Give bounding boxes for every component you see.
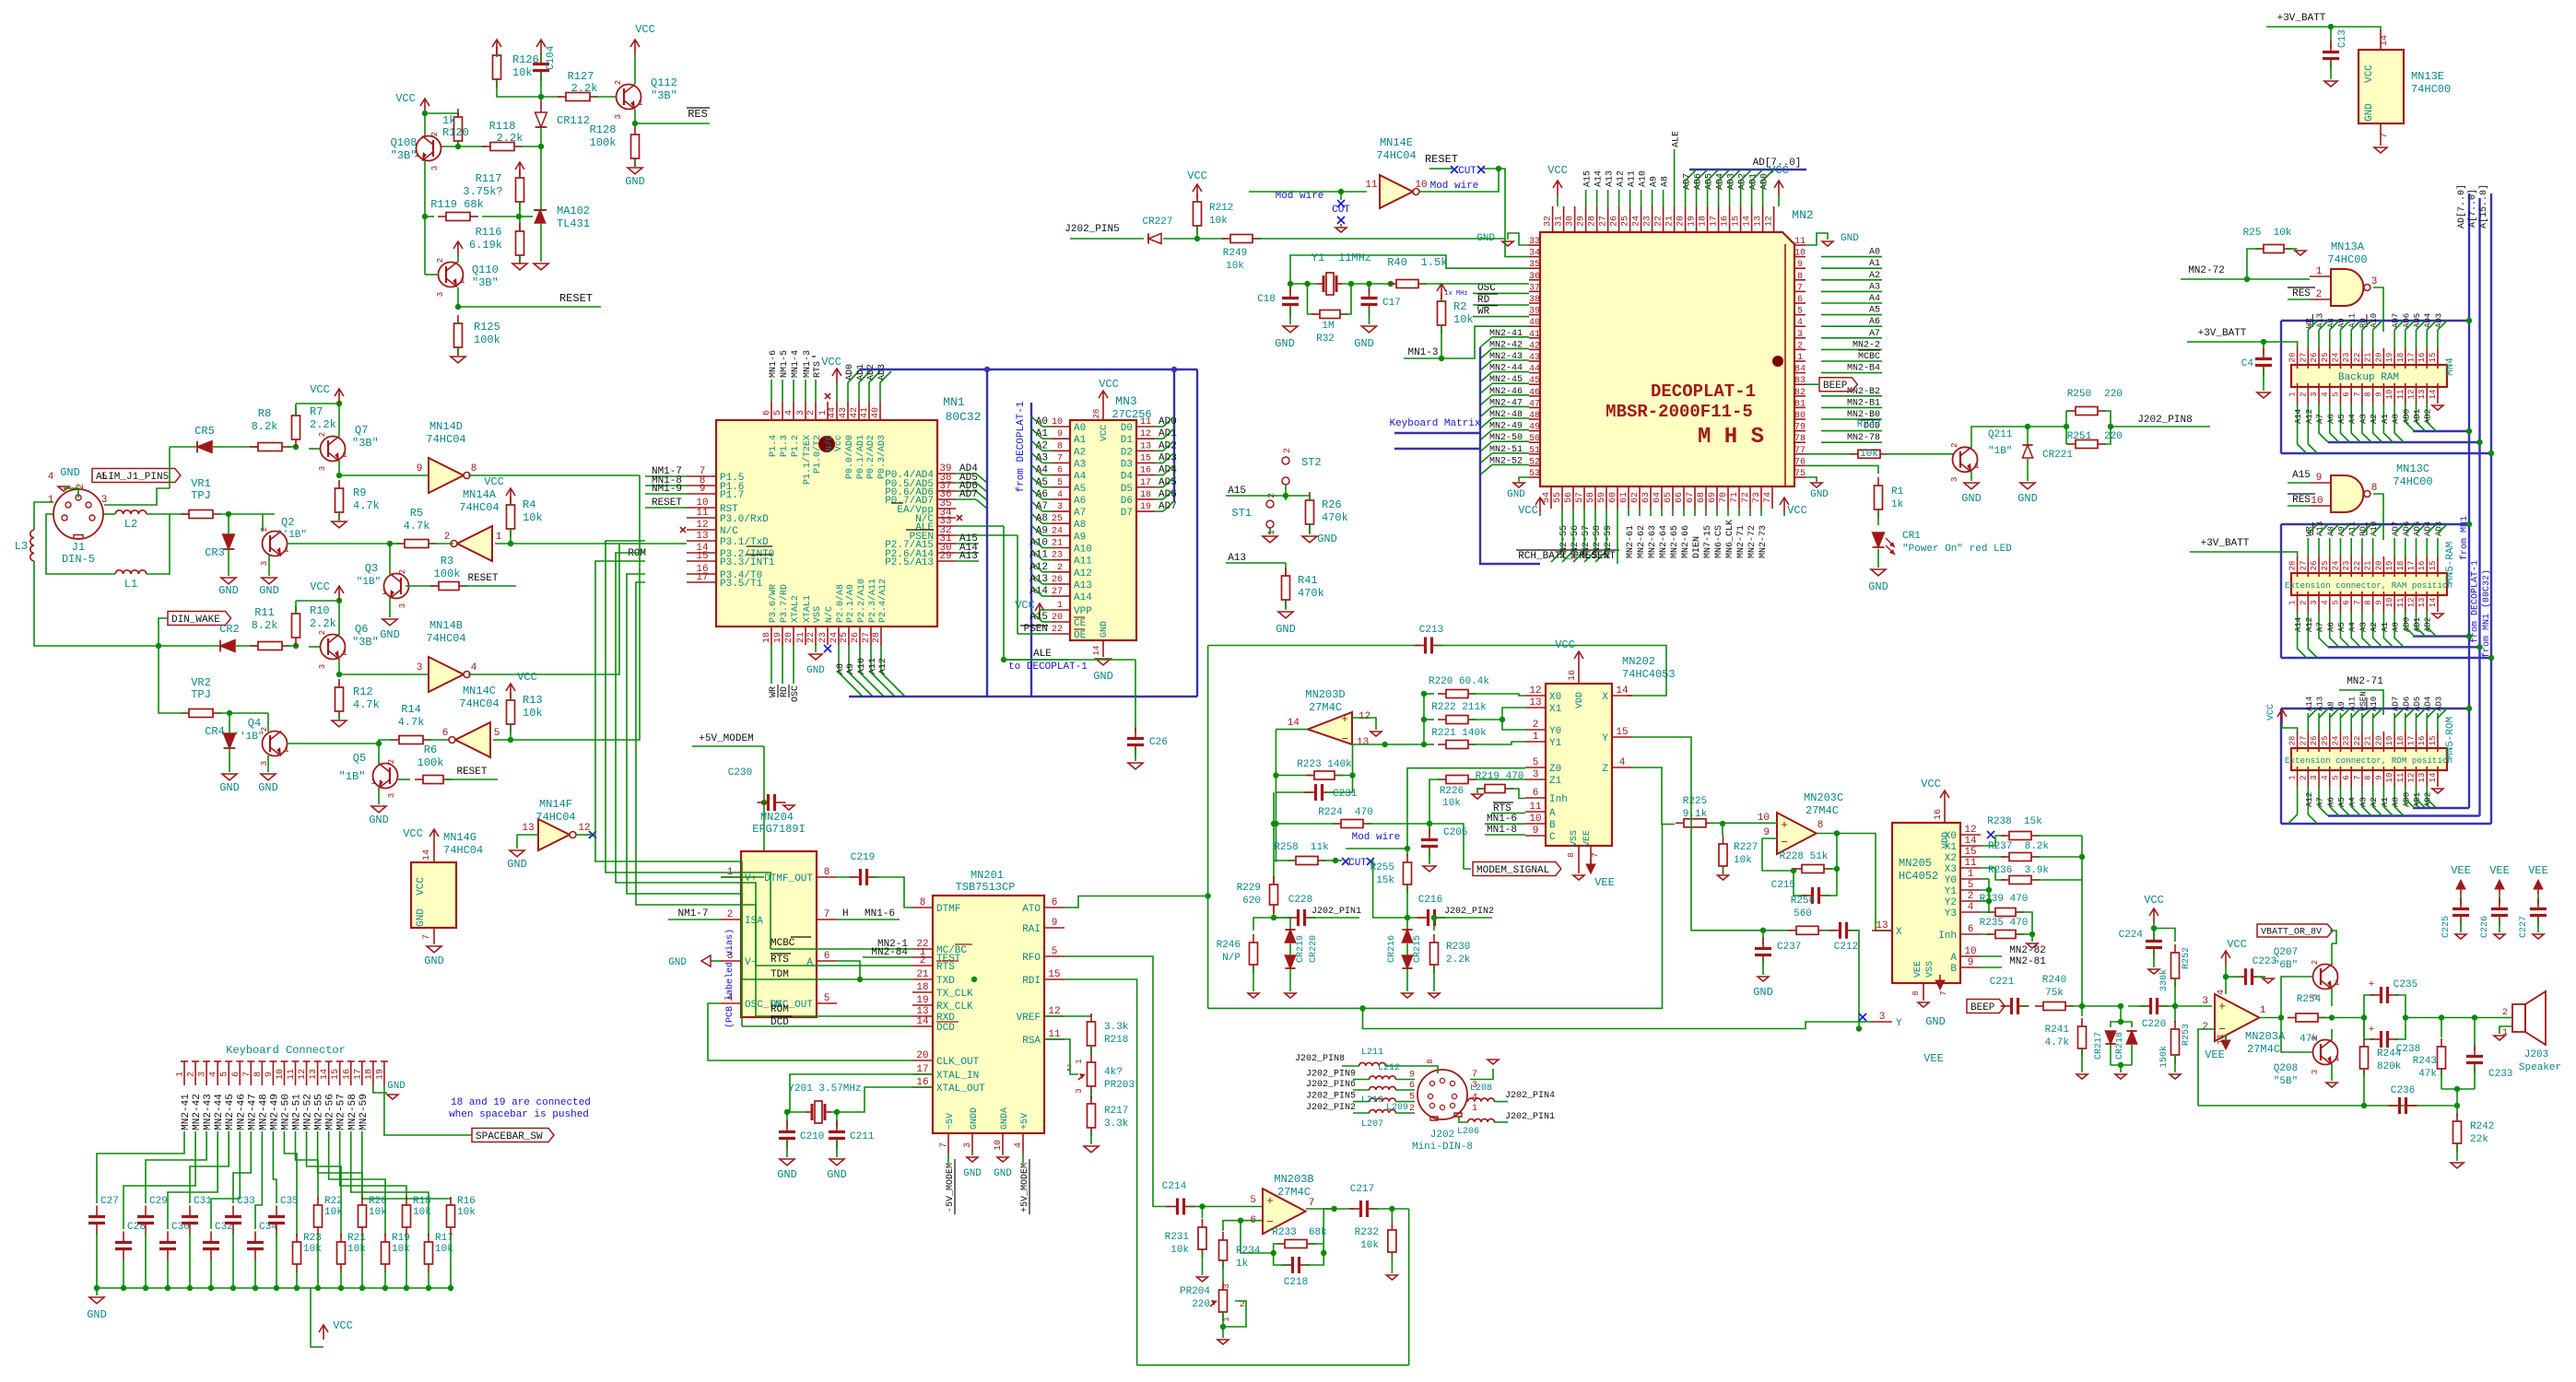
svg-text:24: 24 — [2331, 561, 2340, 571]
svg-text:R41: R41 — [1298, 574, 1318, 587]
svg-text:7: 7 — [1939, 990, 1948, 995]
inductor L3 — [30, 530, 34, 561]
wire R25 to node — [2247, 249, 2261, 276]
svg-text:"3B": "3B" — [651, 89, 677, 102]
wire R116 to GND — [519, 255, 521, 262]
wire R228 to out — [1828, 834, 1837, 870]
svg-text:GND: GND — [416, 908, 427, 927]
ground at J1 pin2 — [58, 486, 69, 491]
svg-text:33: 33 — [1529, 237, 1540, 247]
ground below R227 — [1718, 875, 1729, 880]
ground below Q208 — [2326, 1083, 2337, 1087]
wire pin19 to spacebar label — [384, 1085, 472, 1135]
capacitor C29 — [137, 1206, 154, 1235]
wire OSC_IN loop — [708, 1003, 912, 1060]
junction A/TXD — [857, 977, 863, 982]
svg-text:X0: X0 — [1945, 831, 1957, 842]
ground below C13 — [2324, 81, 2337, 87]
net AD7 (connector MN5-RAM extension RAM pin 19) — [2394, 538, 2395, 556]
svg-text:P0.0/AD0: P0.0/AD0 — [844, 435, 855, 479]
wire Q211 collector to R250 pair — [1971, 427, 2066, 448]
svg-text:2.2k: 2.2k — [310, 617, 336, 630]
svg-text:ALE: ALE — [1672, 131, 1682, 147]
wire rail down — [763, 746, 765, 877]
svg-text:26: 26 — [1052, 575, 1063, 585]
wire Y3 — [1981, 911, 1991, 913]
svg-text:"5B": "5B" — [2274, 1076, 2298, 1087]
capacitor C28 — [115, 1232, 132, 1260]
svg-text:2: 2 — [727, 909, 734, 920]
capacitor C238 (polar) — [2364, 1018, 2374, 1040]
svg-text:AD[7..0]: AD[7..0] — [1753, 158, 1802, 169]
wire VCC to Q7 collector — [338, 404, 340, 437]
ground below Q3 — [382, 619, 397, 626]
svg-text:P1.3: P1.3 — [780, 435, 790, 457]
svg-text:67: 67 — [1686, 492, 1696, 503]
solder jumper ST2 — [1282, 457, 1289, 464]
svg-text:R4: R4 — [523, 498, 535, 511]
svg-text:26: 26 — [1610, 216, 1620, 227]
no-connect MN1 pin1 — [825, 393, 830, 399]
svg-text:C29: C29 — [149, 1196, 168, 1207]
wire — [786, 1112, 788, 1128]
svg-text:10: 10 — [2385, 773, 2394, 783]
svg-text:19: 19 — [2385, 561, 2394, 571]
wire MN14A input side — [495, 543, 511, 545]
net label MN2-57 (MN2 bottom) — [1583, 509, 1585, 516]
svg-text:74HC04: 74HC04 — [459, 501, 499, 514]
inductor L211 — [1359, 1062, 1386, 1066]
resistor R25 10k — [2255, 245, 2292, 253]
resistor R228 51k — [1794, 865, 1832, 873]
svg-text:MN2-51: MN2-51 — [292, 1094, 303, 1130]
capacitor C215 — [1794, 871, 1808, 896]
svg-text:4: 4 — [471, 662, 477, 673]
svg-text:CR217: CR217 — [2094, 1032, 2104, 1060]
svg-text:2: 2 — [920, 955, 926, 966]
svg-text:10: 10 — [2385, 390, 2394, 400]
capacitor C220 — [2140, 998, 2169, 1014]
wire CR3 to GND — [228, 549, 229, 576]
resistor R223 140k — [1276, 775, 1313, 777]
svg-text:24: 24 — [1052, 526, 1063, 536]
svg-text:R244: R244 — [2377, 1048, 2402, 1060]
svg-text:MN2-71: MN2-71 — [1736, 525, 1747, 558]
svg-text:MN5-ROM: MN5-ROM — [2445, 717, 2456, 759]
svg-text:A[15..8]: A[15..8] — [2478, 184, 2489, 228]
svg-text:VCC: VCC — [484, 475, 504, 488]
wire L3 top to J1 pin4 — [34, 502, 53, 530]
svg-text:Y0: Y0 — [1549, 726, 1561, 737]
wire keyboard pin 3 to C29 — [146, 1131, 206, 1203]
svg-text:65: 65 — [1664, 492, 1674, 503]
ground below R231 — [1197, 1277, 1208, 1282]
svg-text:A0: A0 — [1074, 423, 1086, 434]
svg-text:3: 3 — [198, 1072, 208, 1077]
bus A[7..0] vertical right — [2478, 198, 2480, 816]
svg-text:R8: R8 — [258, 407, 271, 420]
svg-text:MN2-59: MN2-59 — [359, 1094, 370, 1130]
svg-text:1k: 1k — [442, 114, 455, 127]
connector MN4 Backup RAM top pins 28..15 — [2297, 348, 2299, 369]
svg-text:MN2-48: MN2-48 — [258, 1094, 269, 1130]
wire VCC to R120 — [425, 113, 458, 118]
svg-text:P1.1/T2EX: P1.1/T2EX — [802, 435, 813, 485]
hierarchical label DIN_WAKE — [168, 612, 231, 626]
svg-text:R32: R32 — [1316, 334, 1335, 345]
bus bottom horizontal — [849, 696, 1197, 697]
svg-text:ALIM_J1_PIN5: ALIM_J1_PIN5 — [96, 472, 169, 483]
svg-text:VREF: VREF — [1017, 1013, 1041, 1024]
svg-text:10k: 10k — [303, 1244, 322, 1255]
bus vertical from DECOPLAT-1 — [1030, 403, 1032, 697]
svg-text:C237: C237 — [1777, 942, 1801, 953]
svg-text:21: 21 — [916, 969, 929, 980]
overbar EA — [891, 502, 903, 504]
diagonals MN5-ROM bottom — [2308, 805, 2317, 824]
wire L211 to pin8 — [1385, 1066, 1438, 1073]
svg-text:19: 19 — [773, 632, 783, 643]
svg-text:A14: A14 — [2294, 617, 2303, 632]
IC MN2 DECOPLAT-1 MBSR-2000F11-5 — [1540, 232, 1794, 486]
svg-text:AD7: AD7 — [2392, 697, 2401, 711]
wire/net A9 to bottom bus — [848, 645, 850, 673]
svg-text:220: 220 — [2104, 431, 2123, 442]
diode CR216 — [1402, 955, 1412, 968]
svg-text:18: 18 — [2396, 353, 2405, 363]
wire to Q110 base — [425, 274, 438, 275]
svg-text:VSS: VSS — [1570, 830, 1580, 847]
svg-text:R240: R240 — [2042, 975, 2066, 986]
svg-text:22: 22 — [2353, 561, 2362, 571]
svg-text:VCC: VCC — [1518, 504, 1538, 517]
resistor R249 10k — [1222, 235, 1261, 243]
bus ring MN5-RAM top — [2281, 523, 2469, 525]
svg-text:A9: A9 — [2337, 318, 2347, 328]
svg-text:10k: 10k — [1226, 261, 1244, 272]
svg-text:9: 9 — [2316, 473, 2323, 484]
svg-text:R237 8.2k: R237 8.2k — [1988, 841, 2049, 852]
wire — [510, 698, 512, 700]
svg-text:R258 11k: R258 11k — [1274, 842, 1329, 853]
svg-text:54: 54 — [1542, 492, 1552, 503]
wire MN2-71 down — [2339, 690, 2383, 715]
svg-text:A10: A10 — [1639, 170, 1649, 187]
wire MN2 pin34 (RES/R249 net) — [1505, 239, 1529, 257]
svg-text:R128: R128 — [590, 123, 617, 136]
wire R118 to CR112 node — [519, 146, 541, 147]
wire ALIM to CR5 — [169, 447, 171, 488]
svg-text:2: 2 — [2311, 1036, 2320, 1040]
net A11 (connector MN5-RAM extension RAM pin 23) — [2350, 538, 2352, 556]
resistor R127 2.2k — [558, 93, 598, 101]
svg-text:5: 5 — [2331, 600, 2340, 604]
wire RXD — [756, 1015, 912, 1017]
svg-text:VEE: VEE — [1923, 1052, 1944, 1065]
MN3 address pins — [1052, 426, 1070, 427]
svg-text:10: 10 — [2385, 598, 2394, 608]
ground (connector MN5-ROM extension ROM pin 14) — [2432, 789, 2443, 793]
resistor R258 11k — [1288, 857, 1326, 865]
svg-text:11: 11 — [1140, 417, 1151, 427]
wire — [1467, 1101, 1469, 1103]
svg-text:23: 23 — [1052, 551, 1063, 561]
svg-text:A7: A7 — [2316, 797, 2325, 807]
svg-text:42: 42 — [850, 407, 860, 418]
svg-text:MN14F: MN14F — [539, 798, 572, 811]
net label DIEN (MN2 bottom) — [1694, 509, 1696, 516]
svg-text:A2: A2 — [1074, 447, 1086, 458]
svg-text:R2: R2 — [1453, 300, 1466, 313]
MN3 VCC pin 28 — [1102, 405, 1104, 420]
connector MN5-RAM extension RAM bottom pins 1..14 — [2297, 591, 2299, 612]
svg-text:18: 18 — [364, 1069, 374, 1080]
resistor R234 1k — [1222, 1230, 1224, 1232]
svg-text:CUT: CUT — [1458, 166, 1476, 177]
wire — [262, 514, 264, 532]
svg-text:12: 12 — [696, 520, 708, 531]
svg-text:10k: 10k — [1442, 798, 1461, 809]
resistor R251 220 — [2067, 440, 2106, 449]
bus ring MN5-ROM left — [2280, 709, 2282, 824]
svg-text:8: 8 — [2364, 600, 2373, 604]
resistor R4 10k — [507, 497, 515, 537]
svg-text:71: 71 — [1730, 492, 1740, 503]
svg-text:74HC00: 74HC00 — [2411, 83, 2451, 96]
svg-text:MN2-47: MN2-47 — [247, 1094, 258, 1130]
wire res to rail — [296, 1271, 298, 1288]
junction C237 — [1760, 928, 1766, 933]
wire MN204 A to TXD — [837, 961, 860, 979]
svg-text:11: 11 — [2396, 390, 2405, 400]
wire PSEN down — [1017, 535, 1018, 634]
svg-text:Speaker: Speaker — [2519, 1062, 2561, 1073]
svg-text:2: 2 — [2502, 1008, 2508, 1018]
svg-text:5: 5 — [1250, 1195, 1256, 1206]
power VCC above C224 — [2149, 908, 2158, 923]
svg-text:J202_PIN2: J202_PIN2 — [1444, 907, 1494, 917]
svg-text:VCC: VCC — [635, 23, 655, 36]
wire/net A11 to bottom bus — [870, 645, 872, 673]
svg-text:16: 16 — [1721, 216, 1731, 227]
wire feedback bottom — [2198, 1105, 2457, 1107]
svg-text:11: 11 — [1794, 237, 1806, 247]
svg-text:''1B": ''1B" — [276, 530, 307, 541]
svg-text:MN13A: MN13A — [2331, 240, 2365, 253]
ground below Q2 — [262, 578, 276, 584]
wire CR2 to R11 — [236, 645, 257, 647]
power VCC above Q112 — [630, 40, 640, 54]
svg-text:17: 17 — [1140, 478, 1151, 488]
power VEE MN203A — [2221, 1035, 2230, 1049]
svg-text:10: 10 — [1052, 417, 1063, 427]
resistor R225 9.1k — [1676, 819, 1714, 827]
wire MN13A out down to MN4 pin20 — [2373, 287, 2383, 332]
svg-text:9: 9 — [1797, 260, 1803, 270]
svg-text:P1.7: P1.7 — [720, 490, 744, 501]
svg-text:J202_PIN9: J202_PIN9 — [1306, 1070, 1356, 1080]
wire R26 to GND — [1309, 524, 1311, 534]
svg-text:L208: L208 — [1470, 1083, 1492, 1094]
wire base Q208 — [2281, 1018, 2312, 1053]
ground below CR220 — [1285, 993, 1296, 998]
wire res to rail — [340, 1271, 342, 1288]
wire XTAL_IN — [790, 1074, 933, 1112]
wire wiper to bottom — [1223, 1301, 1246, 1327]
wire cap to rail — [254, 1259, 256, 1288]
svg-text:VCC: VCC — [821, 356, 841, 369]
svg-text:43: 43 — [1529, 353, 1540, 363]
bus ring MN5-ROM top — [2281, 708, 2469, 709]
wire to C228 — [1274, 917, 1292, 919]
svg-text:C225: C225 — [2441, 916, 2452, 938]
svg-text:R212: R212 — [1209, 203, 1233, 214]
svg-text:MN2-55: MN2-55 — [314, 1094, 325, 1130]
svg-text:R230: R230 — [1446, 942, 1470, 953]
wire/net AD3 (MN2 top) — [1729, 192, 1731, 206]
wire keyboard pin 13 to R20 — [318, 1131, 362, 1200]
svg-text:21: 21 — [1665, 216, 1676, 227]
svg-text:3: 3 — [1075, 1088, 1084, 1093]
wire to J202_PIN8 — [2111, 426, 2210, 427]
svg-text:D6: D6 — [1121, 496, 1133, 507]
svg-text:74HC4053: 74HC4053 — [1622, 668, 1676, 681]
wire ladder column to BEEP node — [2081, 836, 2083, 1006]
wire keyboard pin 16 to R17 — [351, 1131, 429, 1236]
svg-text:C17: C17 — [1382, 298, 1401, 309]
junction CR3 — [226, 511, 231, 517]
wire RESET net — [458, 306, 601, 308]
svg-text:27: 27 — [2299, 561, 2308, 571]
svg-text:J202_PIN6: J202_PIN6 — [1306, 1080, 1356, 1090]
svg-text:R238 15k: R238 15k — [1987, 816, 2042, 827]
wire RTS — [815, 380, 817, 402]
wire MN1-6 to B — [1485, 823, 1525, 825]
wire — [2153, 923, 2155, 929]
GND hook at MN2 pin11 — [1806, 233, 1828, 245]
svg-text:+5V_MODEM: +5V_MODEM — [699, 733, 753, 744]
svg-text:J1: J1 — [72, 541, 85, 554]
net AD6 (connector MN5-ROM extension ROM pin 18) — [2405, 713, 2406, 732]
svg-text:62: 62 — [1630, 492, 1641, 503]
wire — [1285, 496, 1287, 500]
wire — [457, 320, 459, 323]
svg-text:10: 10 — [1758, 813, 1770, 824]
svg-text:2: 2 — [806, 410, 817, 416]
svg-text:10k: 10k — [457, 1207, 476, 1218]
net AD2 (connector MN4 Backup RAM pin 13) — [2426, 404, 2428, 422]
resistor R8 8.2k — [250, 443, 290, 451]
svg-text:VCC: VCC — [2266, 704, 2276, 720]
capacitor C221 — [2001, 998, 2029, 1014]
wire RES — [2288, 299, 2310, 300]
MN1 right pins — [937, 473, 956, 474]
svg-text:2: 2 — [614, 80, 623, 85]
svg-text:6.19k: 6.19k — [469, 239, 502, 252]
resistor R243 47k — [2441, 1018, 2442, 1038]
ground below cut — [1335, 228, 1347, 232]
svg-text:C215: C215 — [1771, 880, 1795, 891]
svg-text:H: H — [842, 908, 849, 919]
net label A8 (MN2 top) — [1663, 190, 1664, 206]
svg-text:DIN-5: DIN-5 — [62, 553, 95, 566]
net A14 (connector MN4 Backup RAM pin 1) — [2297, 404, 2299, 422]
svg-text:64: 64 — [1653, 492, 1663, 503]
net A12 (connector MN4 Backup RAM pin 2) — [2307, 404, 2309, 422]
wire A — [1981, 955, 2002, 957]
resistor R236 3.9k — [1981, 868, 2006, 880]
net label WR (MN1) — [770, 645, 772, 684]
wire MN203C inverting hook — [1762, 838, 1794, 871]
resistor R220 60.4k — [1424, 693, 1434, 695]
capacitor C235 (polar) — [2364, 995, 2374, 1018]
svg-text:VCC: VCC — [333, 1319, 353, 1332]
wire cap to rail — [276, 1233, 277, 1288]
net A6 (connector MN4 Backup RAM pin 4) — [2329, 404, 2331, 422]
junction output/bases — [2278, 1014, 2284, 1020]
net label A14 (MN2 top) — [1596, 190, 1598, 206]
svg-text:GND: GND — [1276, 623, 1296, 636]
resistor R230 2.2k — [1433, 918, 1435, 931]
svg-text:C13: C13 — [2337, 29, 2348, 48]
svg-text:4: 4 — [2321, 392, 2330, 396]
svg-text:L211: L211 — [1361, 1048, 1383, 1058]
resistor R255 15k — [1404, 854, 1412, 893]
resistor R117 3.75k — [516, 170, 524, 210]
wire MN203C out to MN205 X — [1817, 834, 1892, 931]
ground below CR pair — [2115, 1074, 2126, 1079]
wire MN2 pin35 to crystal — [1290, 255, 1529, 284]
svg-text:CR227: CR227 — [1142, 217, 1172, 228]
ground below R232 — [1386, 1275, 1397, 1280]
svg-text:+3V_BATT: +3V_BATT — [2198, 328, 2247, 339]
svg-text:24: 24 — [1632, 216, 1642, 227]
svg-text:MN13C: MN13C — [2396, 463, 2429, 475]
svg-text:8: 8 — [920, 897, 926, 908]
wire to VCC — [296, 600, 339, 602]
svg-text:10k: 10k — [1170, 1245, 1189, 1256]
svg-text:RX_CLK: RX_CLK — [936, 1001, 973, 1013]
svg-text:22: 22 — [2353, 736, 2362, 746]
junction TXD/MN204-A — [971, 977, 977, 982]
svg-text:R247: R247 — [1857, 419, 1881, 430]
svg-text:CR218: CR218 — [2115, 1032, 2125, 1060]
svg-text:51: 51 — [1529, 446, 1540, 456]
svg-text:75: 75 — [1794, 469, 1806, 479]
svg-text:A4: A4 — [2348, 622, 2358, 632]
svg-text:100k: 100k — [474, 334, 500, 346]
wire C219 to DTMF — [871, 877, 912, 908]
wire MN2-72 — [2181, 278, 2310, 280]
svg-text:Keyboard Matrix: Keyboard Matrix — [1389, 418, 1480, 429]
svg-text:GND: GND — [1925, 1015, 1946, 1028]
svg-text:10: 10 — [2311, 496, 2323, 507]
capacitor C211 — [829, 1121, 845, 1150]
resistor R239 470 — [1980, 889, 1982, 891]
wire keyboard pin 17 to R16 — [362, 1131, 451, 1200]
svg-text:(PCB labeled vias): (PCB labeled vias) — [724, 929, 735, 1028]
wire — [1342, 1065, 1359, 1067]
wire — [2131, 1045, 2133, 1065]
speaker J203 — [2512, 991, 2546, 1045]
svg-text:4: 4 — [1014, 1142, 1024, 1148]
power VCC (MN5-ROM pin28) — [2277, 709, 2287, 724]
ground below C211 — [829, 1159, 844, 1165]
wire — [1290, 283, 1317, 285]
svg-text:CR216: CR216 — [1387, 935, 1397, 963]
resistor R254 47k — [2288, 1013, 2326, 1022]
svg-text:R235 470: R235 470 — [1980, 918, 2029, 929]
